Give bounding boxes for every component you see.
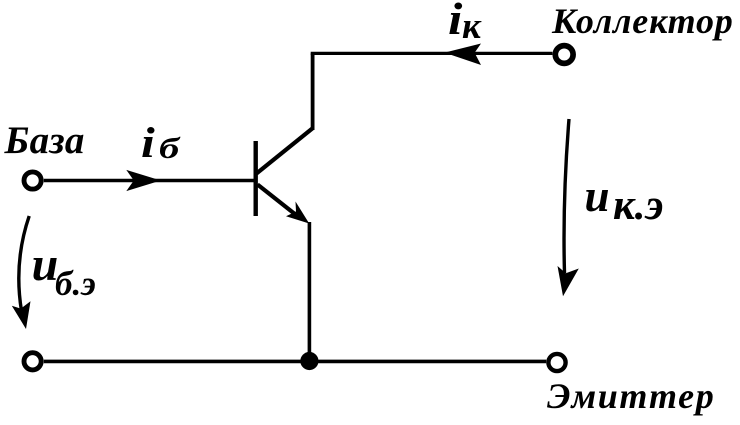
transistor VT1 collector diagonal <box>257 129 313 174</box>
wire collector vertical <box>311 53 315 130</box>
wire emitter vertical <box>308 222 312 361</box>
junction dot emitter node <box>300 352 318 370</box>
label Эмиттер <box>547 378 715 414</box>
label u_б.э subscript <box>55 266 96 301</box>
label u_к.э main <box>585 174 610 219</box>
label i_б main <box>141 122 155 165</box>
arrowhead i_к current direction <box>445 44 482 66</box>
label Коллектор <box>552 3 734 39</box>
wire bottom rail <box>44 360 546 364</box>
node bottom-left terminal <box>24 353 41 370</box>
arrowhead u_к.э <box>558 266 579 296</box>
label i_к main <box>448 0 462 42</box>
arc u_к.э voltage arrow <box>564 119 569 273</box>
transistor VT1 emitter diagonal <box>258 185 299 217</box>
arc u_б.э voltage arrow <box>19 216 29 311</box>
arrowhead u_б.э <box>12 301 31 329</box>
label u_к.э subscript <box>613 184 663 227</box>
wire base lead <box>44 179 254 182</box>
label u_б.э main <box>32 241 59 289</box>
label i_к subscript <box>462 8 481 45</box>
label База <box>5 121 85 160</box>
node Эмиттер terminal <box>548 354 565 371</box>
arrowhead i_б current direction <box>126 170 161 191</box>
transistor VT1 base bar <box>253 141 257 216</box>
node База terminal (base) <box>24 172 41 189</box>
wire collector horizontal <box>311 52 553 55</box>
node Коллектор terminal <box>555 46 573 64</box>
label i_б subscript <box>159 134 179 164</box>
arrowhead emitter (npn) <box>286 202 309 224</box>
